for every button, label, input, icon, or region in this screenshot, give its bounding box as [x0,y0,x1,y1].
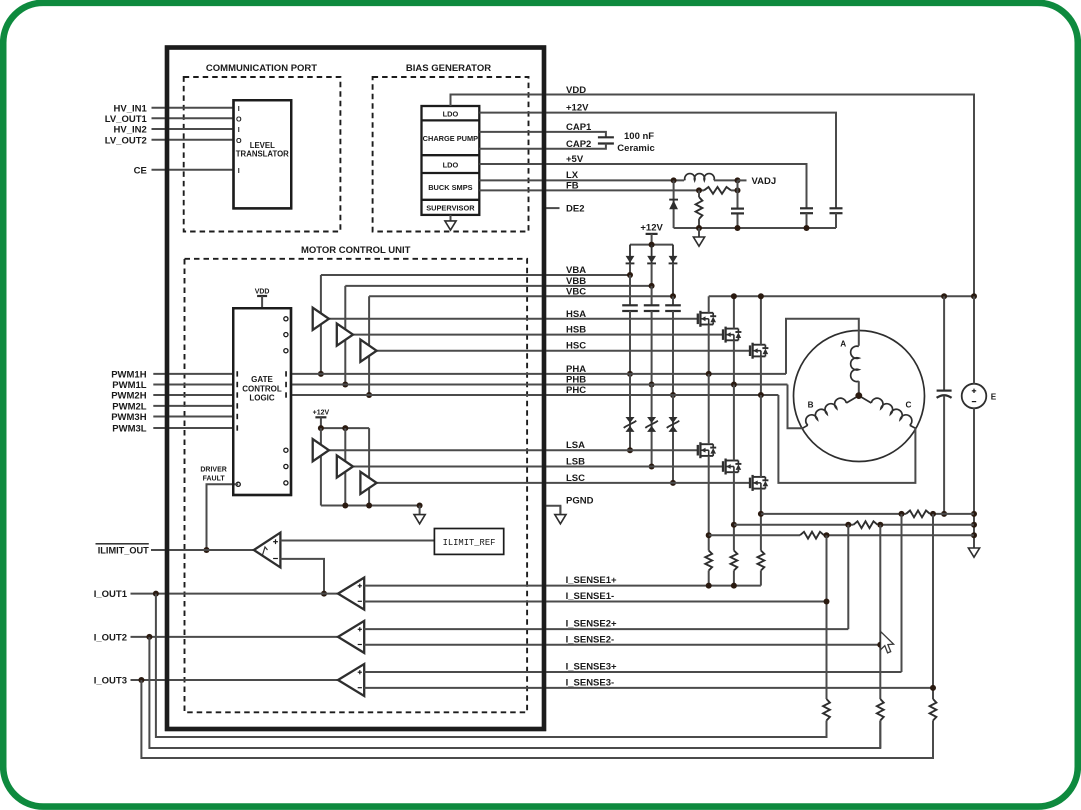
svg-text:I_SENSE2+: I_SENSE2+ [566,619,617,630]
wire bootstrap column B mid [651,311,653,385]
svg-text:LX: LX [566,170,579,181]
GCL input marker PWM3H [236,414,238,419]
wire PWM1H [153,373,233,375]
wire PHB [291,384,788,386]
wire C_5V lower lead [806,213,808,228]
wire LV_OUT1 [152,117,234,119]
wire LS driver supply rail [321,427,369,429]
svg-text:100 nF: 100 nF [624,131,654,142]
wire I_SENSE1+ [364,585,761,587]
svg-text:HV_IN2: HV_IN2 [114,125,147,136]
wire PGND [544,506,560,515]
resistor R_div2 [877,699,884,721]
svg-text:B: B [808,400,814,409]
svg-text:+12V: +12V [640,223,663,234]
GCL input marker PWM1H [236,371,238,376]
ground buck [693,228,704,246]
wire Q_LA source to IS1+ [708,571,710,586]
svg-text:PHB: PHB [566,375,586,386]
wire I_OUT1 feedback loop [156,594,827,737]
wire +12V stem [651,234,653,245]
wire FB [479,189,704,191]
wire LSB buffer column [344,428,346,505]
node FB junction [696,187,702,193]
svg-text:LDO: LDO [443,110,459,119]
wire Q_HC drain [760,296,762,344]
wire VADJ column [737,180,739,228]
node IS3- junction [930,685,936,691]
main driver IC box [167,48,544,730]
svg-text:I: I [238,125,240,134]
node IS1- junction [824,599,830,605]
wire Q_LC source [760,489,762,551]
node rail2 junctions [845,522,851,528]
amp3 minus sign [358,687,362,689]
svg-text:LV_OUT1: LV_OUT1 [105,114,148,125]
wire I_OUT2 [131,636,339,638]
node HSC buffer return [366,392,372,398]
wire ILIMIT_OUT [151,549,254,551]
capacitor C_boot_B [644,305,660,311]
diode D_boot_C [669,245,678,265]
battery E source [962,384,987,409]
svg-text:PWM1H: PWM1H [111,370,147,381]
wire Q_HA source [708,325,710,374]
amp2 plus sign [358,627,362,631]
node VBA junction [627,272,633,278]
node I_OUT1 junction [153,591,159,597]
node VBC junction [670,293,676,299]
svg-text:CAP2: CAP2 [566,139,591,150]
wire Q_LA drain [708,374,710,444]
resistor R_sense_A [705,551,712,571]
wire PHC [291,394,778,396]
wire CAP1 [479,132,606,137]
amp1 minus sign [358,600,362,602]
svg-text:PWM2H: PWM2H [111,391,147,402]
wire CAP2 [479,144,606,149]
transistor Q_LC [750,475,768,491]
wire bootstrap +12V rail [630,244,673,246]
GCL fault pin circle [236,482,240,486]
GCL input marker PWM2L [236,403,238,408]
node rail taps [706,532,712,538]
GCL phase input marker [285,371,287,376]
svg-text:CAP1: CAP1 [566,122,592,133]
wire phase B to motor [788,385,803,429]
node I_OUT3 junction [138,677,144,683]
svg-text:HV_IN1: HV_IN1 [114,103,148,114]
svg-text:DE2: DE2 [566,204,584,215]
wire +5V [479,164,806,208]
wire D_boot_A lead [629,263,631,275]
wire bootstrap column C upper [672,296,674,305]
wire +12V stem to rail [320,417,322,428]
amp2 minus sign [358,644,362,646]
comparator ILIMIT [254,533,281,568]
comparator plus sign [273,539,278,544]
svg-text:I: I [238,104,240,113]
GCL input marker PWM3L [236,425,238,430]
gate control logic box [233,308,291,495]
wire CE [152,169,234,171]
svg-text:LDO: LDO [443,160,459,169]
bias stack divider [422,154,480,156]
svg-text:I_OUT2: I_OUT2 [94,633,127,644]
svg-text:HSA: HSA [566,309,586,320]
node VBB junction [649,283,655,289]
svg-text:ILIMIT_REF: ILIMIT_REF [443,538,496,548]
resistor R_rail2 [854,521,878,528]
svg-text:PWM3H: PWM3H [111,412,147,423]
resistor R_rail3 [800,532,824,539]
wire C_12V lower lead [835,213,837,228]
capacitor C_vadj [731,209,744,214]
wire buck ground rail [674,227,836,229]
node PHA fet junction [706,371,712,377]
wire HV_IN2 [152,128,234,130]
svg-text:I_SENSE1+: I_SENSE1+ [566,575,617,586]
wire DE2 [546,207,560,209]
wire IS2+ column [847,525,849,629]
wire Q_HA drain [708,296,710,313]
communication port dashed box [184,77,341,232]
amplifier sense amp 3 [338,664,364,696]
winding C coil [859,396,916,429]
node VADJ fb junction [735,187,741,193]
wire VDD [451,95,975,297]
capacitor C_boot_A [622,305,638,311]
winding B coil [803,396,859,429]
svg-text:TRANSLATOR: TRANSLATOR [236,149,289,158]
diode D_boot_B [647,245,656,265]
GCL output pin circle [284,481,288,485]
GCL output pin circle [284,349,288,353]
wire Q_LC source to IS1+ [760,571,762,586]
GCL output pin circle [284,464,288,468]
GCL phase input marker [285,382,287,387]
wire Q_LB source [733,472,735,550]
tvs diode Z_B [645,417,658,432]
node rail3 junction [824,532,830,538]
wire I_SENSE1- [364,601,826,603]
svg-text:HSC: HSC [566,341,586,352]
wire D_boot_C lead [672,263,674,296]
resistor R_sense_C [758,551,765,571]
wire Q_HB source [733,340,735,384]
wire PHA [291,373,786,375]
wire HSB [353,334,723,336]
node I_OUT2 junction [146,634,152,640]
svg-text:GATE: GATE [251,375,273,384]
wire tvs column B [651,385,653,467]
wire PWM2H [153,394,233,396]
ground below bias stack [445,215,456,230]
wire LV_OUT2 [152,139,234,141]
wire I_SENSE3+ [364,671,901,673]
resistor R_fb_bottom [696,190,703,228]
wire bulk cap lower [943,396,945,514]
wire IS3- column [932,514,934,758]
svg-text:I_SENSE2-: I_SENSE2- [566,634,615,645]
gate control logic box outline [233,308,291,495]
wire comparator feedback [280,559,324,594]
wire phase A to motor [786,319,859,374]
svg-text:C: C [906,400,912,409]
motor control unit dashed box [185,259,528,713]
svg-text:LOGIC: LOGIC [249,394,275,403]
transistor Q_LA [698,442,716,458]
wire LSB [353,466,723,468]
svg-text:FAULT: FAULT [203,476,226,483]
resistor R_sense_B [731,551,738,571]
wire I_OUT2 feedback loop [149,637,880,748]
svg-text:MOTOR CONTROL UNIT: MOTOR CONTROL UNIT [301,245,411,256]
node PHB bootstrap junction [649,382,655,388]
wire PWM3L [153,427,233,429]
node LS rail junction 2 [342,425,348,431]
wire Q_HB drain [733,296,735,328]
wire IS1- column [826,535,828,737]
GCL phase input marker [285,392,287,397]
tvs diode Z_A [624,417,637,432]
wire tvs column A [629,374,631,450]
wire bootstrap column A upper [629,275,631,305]
wire LSC [377,482,750,484]
wire Q_LB source to IS1+ [733,571,735,586]
svg-text:DRIVER: DRIVER [200,467,226,474]
svg-text:CHARGE PUMP: CHARGE PUMP [423,134,479,143]
svg-text:I_SENSE1-: I_SENSE1- [566,591,615,602]
wire VBC [369,295,673,297]
amp3 plus sign [358,670,362,674]
GCL input marker PWM1L [236,382,238,387]
wire sense rail 2 [734,524,854,526]
svg-text:+12V: +12V [313,410,330,417]
svg-text:BIAS GENERATOR: BIAS GENERATOR [406,63,491,74]
node motor star point [855,392,862,399]
node I_SENSE1+ junctions [706,583,712,589]
capacitor C_5V [800,208,813,213]
svg-text:I_OUT1: I_OUT1 [94,589,128,600]
svg-text:PWM1L: PWM1L [112,380,147,391]
amplifier sense amp 2 [338,621,364,653]
resistor R_div1 [823,699,830,721]
diode D_buck [669,180,678,228]
tvs diode Z_C [667,417,680,432]
wire Q_LA source [708,456,710,551]
svg-text:VDD: VDD [255,289,270,296]
node rail1 junctions [899,511,905,517]
wire I_OUT3 [131,679,339,681]
transistor Q_HB [723,327,741,343]
wire I_OUT1 [131,593,339,595]
svg-text:A: A [840,339,846,348]
bias generator dashed box [373,77,529,232]
+12V bar symbol [646,233,658,235]
svg-text:LV_OUT2: LV_OUT2 [105,135,147,146]
node bootstrap rail junction [649,242,655,248]
svg-text:VBC: VBC [566,286,586,297]
bias stack divider [422,172,480,174]
node comparator feedback junction [321,591,327,597]
svg-text:VADJ: VADJ [752,176,777,187]
comparator hysteresis mark [263,547,268,555]
svg-text:CE: CE [134,165,147,176]
node LSB tvs junction [649,464,655,470]
wire bootstrap column C mid [672,311,674,395]
wire PWM3H [153,416,233,418]
mouse cursor [881,632,894,653]
ILIMIT_REF box [434,529,503,555]
wire HSA buffer supply [320,275,322,374]
svg-text:I: I [238,166,240,175]
wire sense rail 1 [761,513,906,515]
node PHB fet junction [731,382,737,388]
svg-text:+12V: +12V [566,103,589,114]
wire winding A to star [858,381,860,395]
wire HSA [329,318,698,320]
capacitor C_pump 100nF [598,137,614,143]
node PHC bootstrap junction [670,392,676,398]
ground battery [968,539,979,557]
svg-text:Ceramic: Ceramic [617,143,655,154]
comparator minus sign [273,558,278,560]
level translator U1 box [234,100,292,208]
transistor Q_HC [750,343,768,359]
wire ILIMIT_REF to comparator [280,540,434,542]
GCL output pin circle [284,448,288,452]
wire battery bottom lead [973,408,975,548]
wire PWM1L [153,384,233,386]
GCL output pin circle [284,317,288,321]
diode D_boot_A [626,245,635,265]
wire PWM2L [153,405,233,407]
wire Q_LB drain [733,385,735,461]
wire LSA buffer column [320,428,322,505]
node bulk cap junction [941,511,947,517]
node bridge rail junctions [731,293,737,299]
wire LS driver return rail [321,505,420,507]
svg-text:HSB: HSB [566,325,586,336]
node buck rail junctions [696,225,702,231]
node battery rail junctions [971,511,977,517]
wire D_boot_B lead [651,263,653,286]
GCL input marker PWM2H [236,392,238,397]
capacitor C_bulk [937,390,952,392]
svg-text:PWM2L: PWM2L [112,402,147,413]
buffer LSC driver [360,472,376,494]
wire bridge supply rail [709,295,974,297]
wire sense rail 3 [709,534,800,536]
wire bootstrap column A mid [629,311,631,374]
node LSA tvs junction [627,447,633,453]
svg-text:PGND: PGND [566,496,594,507]
wire I_SENSE3- [364,687,933,689]
inductor L1 [685,174,715,181]
bias stack divider [422,199,480,201]
svg-text:E: E [991,392,997,401]
svg-text:BUCK SMPS: BUCK SMPS [428,183,472,192]
wire I_OUT3 feedback loop [141,680,933,758]
wire tvs column C [672,395,674,483]
wire battery top lead [973,296,975,383]
svg-text:LSC: LSC [566,473,585,484]
buffer HSA driver [313,308,329,330]
bias stack box [422,106,480,215]
resistor R_rail1 [906,511,930,518]
resistor R_fb_top [704,187,731,194]
node LSC tvs junction [670,480,676,486]
amp1 plus sign [358,584,362,588]
wire VBA [321,274,630,276]
svg-text:LSB: LSB [566,457,585,468]
wire phase C to motor [778,395,915,483]
wire HSC buffer supply [368,296,370,395]
wire HSB buffer supply [344,286,346,385]
svg-text:+5V: +5V [566,154,584,165]
bias stack divider [422,119,480,121]
wire LSA [329,449,698,451]
amplifier sense amp 1 [338,578,364,610]
svg-text:COMMUNICATION PORT: COMMUNICATION PORT [206,63,317,74]
ground PGND [555,506,566,524]
wire IS2- column [879,525,881,748]
capacitor C_boot_C [665,305,681,311]
ground LS driver return [414,506,425,524]
wire I_SENSE2+ [364,628,848,630]
capacitor C_12V [830,208,843,213]
svg-text:O: O [236,136,242,145]
wire IS3+ column [901,514,903,672]
svg-text:I_OUT3: I_OUT3 [94,676,127,687]
node LX junction [671,177,677,183]
buffer LSB driver [337,455,353,477]
wire Q_HC source [760,356,762,395]
node IS2- junction [877,642,883,648]
wire Q_LC drain [760,395,762,477]
svg-text:PWM3L: PWM3L [112,424,147,435]
node PHC fet junction [758,392,764,398]
label VADJ [738,179,747,181]
svg-text:LSA: LSA [566,440,585,451]
wire LX [479,179,684,181]
GCL output pin circle [284,333,288,337]
svg-text:VDD: VDD [566,85,586,96]
transistor Q_HA [698,311,716,327]
node ILIMIT_OUT junction [204,547,210,553]
svg-text:I_SENSE3+: I_SENSE3+ [566,662,617,673]
node HSB buffer return [342,382,348,388]
node HSA buffer return [318,371,324,377]
svg-text:O: O [236,115,242,124]
buffer HSC driver [360,340,376,362]
wire HSC [377,350,750,352]
wire HV_IN1 [152,107,234,109]
motor circle [794,331,925,462]
winding A coil [851,346,859,381]
main driver IC box outline [167,48,544,730]
wire bootstrap column B upper [651,286,653,305]
level translator box outline [234,100,292,208]
svg-text:PHA: PHA [566,364,586,375]
transistor Q_LB [723,459,741,475]
node LS rail junction 1 [318,425,324,431]
buffer HSB driver [337,324,353,346]
svg-text:VBA: VBA [566,265,586,276]
buffer LSA driver [313,439,329,461]
wire LSC buffer column [368,428,370,505]
